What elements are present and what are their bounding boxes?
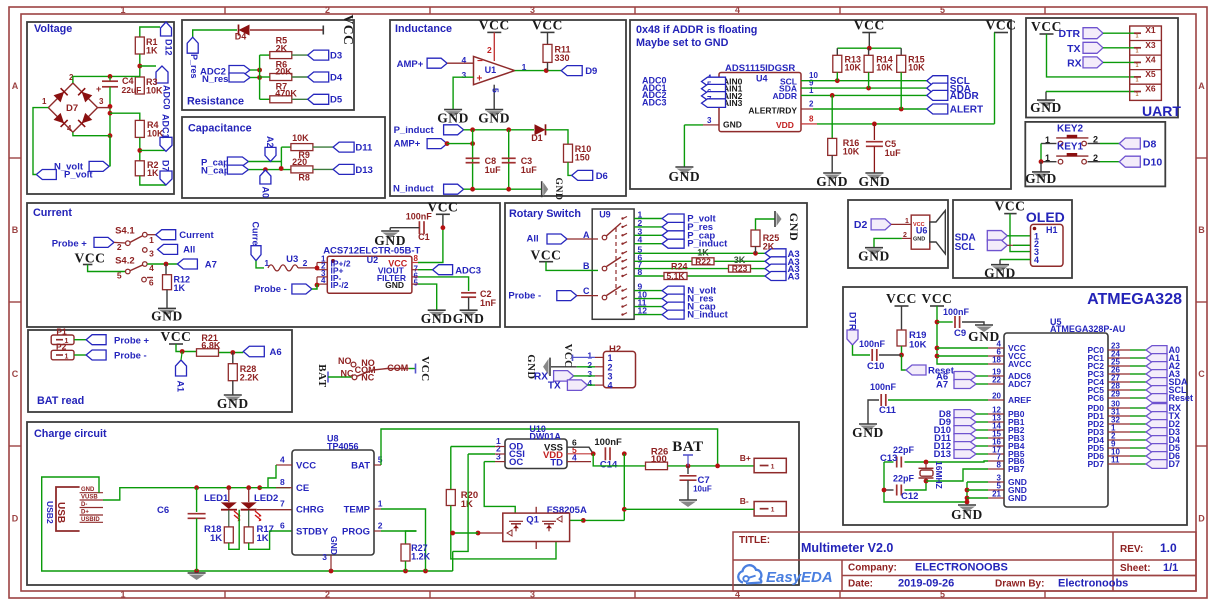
svg-text:20K: 20K <box>275 67 292 77</box>
svg-text:GND: GND <box>385 280 404 290</box>
svg-text:GND: GND <box>984 266 1016 281</box>
svg-text:R22: R22 <box>695 256 711 266</box>
svg-text:1K: 1K <box>257 533 269 544</box>
svg-text:N_cap: N_cap <box>201 166 230 177</box>
svg-text:10K: 10K <box>845 63 862 73</box>
svg-text:ATMEGA328P-AU: ATMEGA328P-AU <box>1050 324 1125 334</box>
svg-text:3: 3 <box>530 5 535 15</box>
svg-text:GND: GND <box>81 487 95 493</box>
svg-text:5: 5 <box>414 279 419 288</box>
svg-text:PROG: PROG <box>342 527 370 538</box>
svg-text:GND: GND <box>478 111 510 126</box>
svg-text:8: 8 <box>414 254 419 263</box>
svg-text:+: + <box>96 84 101 94</box>
svg-text:Inductance: Inductance <box>395 23 452 35</box>
svg-text:ADS1115IDGSR: ADS1115IDGSR <box>725 63 795 74</box>
svg-text:AMP+: AMP+ <box>397 59 424 70</box>
svg-text:12: 12 <box>638 306 648 316</box>
svg-text:VCC: VCC <box>985 18 1016 33</box>
svg-text:D10: D10 <box>1143 157 1162 169</box>
svg-text:7: 7 <box>280 499 285 509</box>
svg-text:10K: 10K <box>909 340 927 351</box>
svg-text:1/1: 1/1 <box>1163 562 1178 574</box>
svg-text:5: 5 <box>940 5 945 15</box>
svg-text:GND: GND <box>816 174 848 189</box>
svg-text:20: 20 <box>992 392 1001 401</box>
svg-text:22: 22 <box>992 376 1001 385</box>
svg-text:GND: GND <box>329 536 339 555</box>
svg-text:D+: D+ <box>81 510 89 516</box>
svg-text:A0: A0 <box>261 187 271 199</box>
svg-text:1: 1 <box>65 353 69 360</box>
svg-text:Company:: Company: <box>848 563 897 574</box>
svg-text:1K: 1K <box>210 533 222 544</box>
svg-text:R8: R8 <box>298 173 310 183</box>
svg-text:100: 100 <box>651 454 667 465</box>
svg-text:1K: 1K <box>146 46 158 56</box>
svg-text:U3: U3 <box>286 254 298 265</box>
svg-text:Resistance: Resistance <box>187 96 244 108</box>
svg-text:H1: H1 <box>1046 225 1058 235</box>
svg-text:1.2K: 1.2K <box>411 552 431 562</box>
svg-text:TP4056: TP4056 <box>327 442 359 452</box>
svg-text:2: 2 <box>378 521 383 531</box>
svg-text:D6: D6 <box>596 171 608 182</box>
svg-text:U6: U6 <box>916 226 928 236</box>
svg-text:R24: R24 <box>671 262 688 272</box>
svg-text:RX: RX <box>1067 57 1082 69</box>
svg-text:A3: A3 <box>788 272 800 283</box>
svg-text:D7: D7 <box>161 160 171 172</box>
svg-text:ADC3: ADC3 <box>642 97 667 107</box>
svg-text:1: 1 <box>1136 63 1139 69</box>
svg-text:GND: GND <box>1030 100 1062 115</box>
svg-text:C14: C14 <box>600 460 618 471</box>
svg-text:STDBY: STDBY <box>296 527 329 538</box>
svg-text:GND: GND <box>437 111 469 126</box>
svg-text:1: 1 <box>42 97 47 106</box>
svg-text:Voltage: Voltage <box>34 23 72 35</box>
svg-text:4: 4 <box>608 381 613 391</box>
svg-text:TX: TX <box>548 380 561 391</box>
svg-text:VCC: VCC <box>74 251 105 266</box>
svg-text:D4: D4 <box>330 73 343 84</box>
svg-text:D12: D12 <box>164 39 174 56</box>
svg-text:GND: GND <box>374 233 406 248</box>
svg-text:REV:: REV: <box>1120 544 1143 555</box>
svg-text:Charge circuit: Charge circuit <box>34 428 107 440</box>
svg-text:2: 2 <box>117 242 122 252</box>
svg-text:Electronoobs: Electronoobs <box>1058 578 1128 590</box>
svg-text:KEY1: KEY1 <box>1057 142 1084 153</box>
svg-text:B+: B+ <box>740 453 751 463</box>
svg-text:2: 2 <box>487 45 492 55</box>
svg-text:A: A <box>583 230 590 240</box>
svg-text:2.2K: 2.2K <box>240 373 260 383</box>
svg-text:TEMP: TEMP <box>344 505 371 516</box>
svg-text:100nF: 100nF <box>943 307 970 317</box>
svg-text:D13: D13 <box>934 449 951 460</box>
svg-text:D5: D5 <box>330 95 343 106</box>
svg-text:16MHZ: 16MHZ <box>934 461 944 489</box>
svg-text:8: 8 <box>997 461 1002 470</box>
svg-text:D7: D7 <box>66 103 78 114</box>
svg-text:VCC: VCC <box>562 344 573 369</box>
svg-text:2K: 2K <box>763 242 775 252</box>
svg-text:Multimeter V2.0: Multimeter V2.0 <box>801 541 893 555</box>
svg-text:1: 1 <box>120 5 125 15</box>
svg-text:NO: NO <box>338 356 352 366</box>
svg-text:UART: UART <box>1142 103 1181 119</box>
svg-text:VCC: VCC <box>296 461 316 472</box>
svg-text:1: 1 <box>378 499 383 509</box>
svg-text:GND: GND <box>421 311 453 326</box>
svg-text:ADC1: ADC1 <box>161 114 171 139</box>
svg-text:RX: RX <box>534 371 548 382</box>
svg-text:A: A <box>12 81 19 91</box>
svg-text:VCC: VCC <box>532 17 563 32</box>
svg-text:A: A <box>1198 81 1205 91</box>
svg-text:X5: X5 <box>1145 69 1156 79</box>
svg-text:PC6: PC6 <box>1087 393 1104 403</box>
svg-text:B-: B- <box>740 496 749 506</box>
svg-text:VCC: VCC <box>479 17 510 32</box>
svg-text:6.8K: 6.8K <box>201 341 221 351</box>
svg-text:D9: D9 <box>585 66 597 77</box>
svg-text:10K: 10K <box>908 63 925 73</box>
svg-text:LED1: LED1 <box>204 493 229 504</box>
svg-text:D1: D1 <box>531 133 543 143</box>
svg-text:TX: TX <box>1067 43 1080 55</box>
svg-text:VCC: VCC <box>854 18 885 33</box>
svg-text:Current: Current <box>179 230 214 241</box>
svg-text:CHRG: CHRG <box>296 505 324 516</box>
svg-text:ELECTRONOOBS: ELECTRONOOBS <box>915 562 1008 574</box>
svg-text:1: 1 <box>149 235 154 245</box>
svg-text:D2: D2 <box>854 219 868 231</box>
svg-text:C: C <box>1198 369 1205 379</box>
svg-text:AREF: AREF <box>1008 395 1031 405</box>
svg-text:VCC: VCC <box>530 248 561 263</box>
svg-text:Probe +: Probe + <box>114 335 150 346</box>
svg-text:0x48 if ADDR is floating: 0x48 if ADDR is floating <box>636 24 757 36</box>
svg-text:1K: 1K <box>147 168 159 178</box>
svg-text:GND: GND <box>723 120 742 130</box>
svg-text:10K: 10K <box>146 86 163 96</box>
svg-text:1uF: 1uF <box>521 165 538 175</box>
svg-text:330: 330 <box>555 53 570 63</box>
svg-text:8: 8 <box>280 477 285 487</box>
svg-text:22uF: 22uF <box>122 85 142 95</box>
svg-text:D11: D11 <box>355 143 373 154</box>
svg-text:VCC: VCC <box>160 329 191 344</box>
svg-text:5: 5 <box>117 271 122 281</box>
svg-text:X1: X1 <box>1145 25 1156 35</box>
svg-text:N_induct: N_induct <box>393 184 434 195</box>
svg-text:3: 3 <box>496 451 501 461</box>
svg-text:1K: 1K <box>461 499 473 510</box>
svg-text:D: D <box>1198 514 1205 524</box>
svg-text:5: 5 <box>491 88 501 93</box>
svg-text:4: 4 <box>280 455 285 465</box>
svg-text:C9: C9 <box>954 328 966 339</box>
svg-text:470K: 470K <box>275 89 297 99</box>
svg-text:ALERT: ALERT <box>950 105 983 116</box>
svg-text:Reset: Reset <box>1169 393 1194 403</box>
svg-text:Probe -: Probe - <box>254 284 287 295</box>
svg-text:1: 1 <box>1136 77 1139 83</box>
svg-text:VDD: VDD <box>776 120 794 130</box>
svg-text:4: 4 <box>735 5 740 15</box>
svg-text:Date:: Date: <box>848 579 873 590</box>
svg-text:C12: C12 <box>901 491 918 502</box>
svg-text:D-: D- <box>81 502 87 508</box>
svg-text:ADDR: ADDR <box>772 91 797 101</box>
svg-text:ALERT/RDY: ALERT/RDY <box>748 106 797 116</box>
svg-text:VCC: VCC <box>921 291 952 306</box>
svg-text:IP-/2: IP-/2 <box>331 280 349 290</box>
svg-text:220: 220 <box>292 157 307 167</box>
svg-text:1uF: 1uF <box>485 165 502 175</box>
svg-text:PD7: PD7 <box>1087 459 1104 469</box>
svg-text:1: 1 <box>809 86 814 95</box>
svg-text:GND: GND <box>858 249 890 264</box>
svg-text:TD: TD <box>550 458 563 469</box>
svg-text:18: 18 <box>992 356 1001 365</box>
svg-text:U4: U4 <box>756 74 768 84</box>
svg-text:10K: 10K <box>292 133 309 143</box>
svg-text:PB7: PB7 <box>1008 464 1025 474</box>
svg-text:DTR: DTR <box>1059 28 1081 40</box>
svg-text:100nF: 100nF <box>870 382 897 392</box>
svg-text:C10: C10 <box>867 361 884 372</box>
svg-text:1.0: 1.0 <box>1160 541 1177 555</box>
svg-text:Probe -: Probe - <box>114 351 147 362</box>
svg-text:100nF: 100nF <box>859 339 886 349</box>
svg-text:X6: X6 <box>1145 84 1156 94</box>
svg-text:C6: C6 <box>157 505 169 516</box>
svg-text:150: 150 <box>575 153 590 163</box>
svg-text:VCC: VCC <box>419 356 431 382</box>
svg-text:1: 1 <box>771 507 775 514</box>
svg-text:AVCC: AVCC <box>1008 359 1031 369</box>
svg-text:−: − <box>477 56 483 67</box>
svg-text:P_volt: P_volt <box>64 170 93 181</box>
svg-text:22pF: 22pF <box>893 474 915 484</box>
svg-text:100nF: 100nF <box>406 212 433 222</box>
svg-text:BAT: BAT <box>351 461 370 472</box>
svg-text:GND: GND <box>553 178 563 201</box>
svg-text:P_res: P_res <box>189 54 199 79</box>
svg-text:USBID: USBID <box>81 517 100 523</box>
svg-text:KEY2: KEY2 <box>1057 124 1084 135</box>
svg-text:Sheet:: Sheet: <box>1120 563 1151 574</box>
svg-text:2: 2 <box>809 100 814 109</box>
svg-text:Maybe set to GND: Maybe set to GND <box>636 37 729 49</box>
svg-text:Probe +: Probe + <box>52 239 88 250</box>
svg-text:CE: CE <box>296 483 309 494</box>
svg-text:1K: 1K <box>174 283 186 293</box>
svg-text:GND: GND <box>968 329 1000 344</box>
svg-text:OC: OC <box>509 457 523 468</box>
svg-text:ADC7: ADC7 <box>1008 379 1031 389</box>
svg-text:AMP+: AMP+ <box>394 139 421 150</box>
svg-text:3: 3 <box>462 70 467 80</box>
svg-text:C: C <box>583 286 590 296</box>
svg-text:ATMEGA328: ATMEGA328 <box>1087 291 1182 308</box>
svg-text:R23: R23 <box>732 264 748 274</box>
svg-text:1nF: 1nF <box>480 298 497 308</box>
svg-text:Probe -: Probe - <box>508 291 541 302</box>
svg-text:BAT read: BAT read <box>37 395 84 407</box>
svg-text:A2: A2 <box>265 136 275 148</box>
svg-text:GND: GND <box>858 174 890 189</box>
svg-text:2: 2 <box>903 232 907 239</box>
svg-text:A1: A1 <box>176 381 186 393</box>
svg-text:4: 4 <box>321 276 326 285</box>
svg-text:TITLE:: TITLE: <box>739 535 770 546</box>
svg-text:FS8205A: FS8205A <box>547 505 587 516</box>
svg-text:4: 4 <box>587 378 592 388</box>
svg-text:11: 11 <box>1111 456 1120 465</box>
svg-text:BAT: BAT <box>316 364 328 388</box>
svg-text:6: 6 <box>280 521 285 531</box>
svg-text:N_induct: N_induct <box>687 310 728 321</box>
svg-text:NC: NC <box>341 369 354 379</box>
svg-text:D7: D7 <box>1169 459 1181 469</box>
svg-text:D4: D4 <box>235 32 247 42</box>
svg-text:2K: 2K <box>276 44 288 54</box>
svg-text:DTR: DTR <box>848 312 858 331</box>
svg-text:P_induct: P_induct <box>394 125 435 136</box>
svg-text:D8: D8 <box>1143 138 1157 150</box>
svg-text:1uF: 1uF <box>885 148 902 158</box>
svg-text:2019-09-26: 2019-09-26 <box>898 578 954 590</box>
svg-text:U1: U1 <box>485 65 497 75</box>
svg-text:3: 3 <box>707 116 712 125</box>
svg-text:SCL: SCL <box>955 242 975 253</box>
svg-text:5.1K: 5.1K <box>667 271 686 281</box>
svg-text:U2: U2 <box>367 255 379 265</box>
svg-text:VUSB: VUSB <box>81 495 98 501</box>
svg-text:10K: 10K <box>876 63 893 73</box>
svg-text:GND: GND <box>913 237 925 243</box>
svg-text:C1: C1 <box>418 232 430 242</box>
svg-text:3: 3 <box>99 97 104 106</box>
svg-text:BAT: BAT <box>672 439 704 455</box>
svg-text:EasyEDA: EasyEDA <box>766 569 833 586</box>
svg-text:D: D <box>12 514 19 524</box>
svg-text:VCC: VCC <box>994 199 1025 214</box>
svg-text:All: All <box>183 245 195 256</box>
svg-text:3: 3 <box>149 249 154 259</box>
svg-text:VCC: VCC <box>1031 19 1062 34</box>
svg-text:GND: GND <box>1008 493 1027 503</box>
svg-text:VCC: VCC <box>427 199 458 214</box>
svg-text:GND: GND <box>668 169 700 184</box>
svg-text:10uF: 10uF <box>693 485 712 494</box>
svg-text:A7: A7 <box>936 380 948 391</box>
svg-text:GND: GND <box>787 213 801 241</box>
svg-text:VCC: VCC <box>341 14 356 45</box>
svg-text:ADC0: ADC0 <box>162 85 172 110</box>
svg-text:1: 1 <box>1136 48 1139 54</box>
svg-text:Q1: Q1 <box>526 515 539 526</box>
svg-text:29: 29 <box>1111 390 1120 399</box>
svg-text:S4.2: S4.2 <box>115 256 135 267</box>
svg-text:USB2: USB2 <box>45 501 55 524</box>
svg-text:1: 1 <box>771 464 775 471</box>
svg-text:GND: GND <box>852 425 884 440</box>
svg-text:8: 8 <box>809 115 814 124</box>
svg-text:X4: X4 <box>1145 54 1156 64</box>
svg-text:C11: C11 <box>879 405 897 416</box>
svg-text:100nF: 100nF <box>594 437 622 448</box>
svg-text:D3: D3 <box>330 51 342 62</box>
svg-text:Rotary Switch: Rotary Switch <box>509 208 581 220</box>
svg-text:3: 3 <box>322 552 327 562</box>
svg-text:Drawn By:: Drawn By: <box>995 579 1044 590</box>
svg-text:+: + <box>477 74 483 85</box>
svg-text:B: B <box>12 225 19 235</box>
svg-text:21: 21 <box>992 490 1001 499</box>
svg-text:3: 3 <box>530 590 535 600</box>
svg-text:OLED: OLED <box>1026 209 1065 225</box>
svg-text:GND: GND <box>453 311 485 326</box>
svg-text:D13: D13 <box>355 165 372 176</box>
svg-text:1: 1 <box>1136 34 1139 40</box>
svg-text:Capacitance: Capacitance <box>188 123 252 135</box>
svg-text:All: All <box>527 234 539 245</box>
svg-text:1: 1 <box>905 218 909 225</box>
svg-text:DW01A: DW01A <box>529 432 561 442</box>
svg-text:U9: U9 <box>599 210 611 220</box>
svg-text:4: 4 <box>1034 255 1039 265</box>
svg-text:GND: GND <box>151 308 183 323</box>
svg-text:Current: Current <box>33 207 72 219</box>
svg-text:1: 1 <box>120 590 125 600</box>
svg-text:2: 2 <box>303 258 308 268</box>
svg-text:2: 2 <box>325 5 330 15</box>
svg-text:N_res: N_res <box>202 74 228 85</box>
svg-text:ADC3: ADC3 <box>455 265 481 276</box>
svg-text:ADDR: ADDR <box>950 91 980 102</box>
svg-text:4: 4 <box>638 235 643 245</box>
svg-text:LED2: LED2 <box>254 493 278 504</box>
svg-text:GND: GND <box>217 396 249 411</box>
svg-text:2: 2 <box>325 590 330 600</box>
svg-text:VCC: VCC <box>886 291 917 306</box>
svg-text:B: B <box>583 261 590 271</box>
svg-text:A7: A7 <box>205 259 217 270</box>
svg-text:C: C <box>12 369 19 379</box>
svg-text:X3: X3 <box>1145 40 1156 50</box>
svg-text:4: 4 <box>67 124 72 133</box>
svg-text:S4.1: S4.1 <box>115 226 135 237</box>
svg-text:A6: A6 <box>270 347 282 358</box>
svg-text:GND: GND <box>1025 171 1057 186</box>
svg-text:B: B <box>1198 225 1205 235</box>
svg-text:10K: 10K <box>843 147 860 157</box>
svg-text:1: 1 <box>1136 92 1139 98</box>
svg-text:6: 6 <box>149 278 154 288</box>
svg-text:GND: GND <box>951 507 983 522</box>
